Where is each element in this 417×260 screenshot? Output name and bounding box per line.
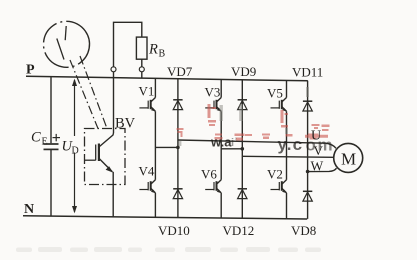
transistor BV emitter with arrow (99, 158, 112, 172)
watermark gray dashes on wires (179, 87, 309, 146)
wire V3 emitter to V6 collector (220, 111, 222, 180)
transistor V4 (139, 180, 155, 193)
wire leg2 midpoint connector (221, 148, 242, 150)
transistor V6 (205, 180, 221, 193)
svg-text:V2: V2 (267, 167, 283, 182)
svg-text:P: P (26, 63, 35, 78)
motor M circle (334, 143, 363, 172)
svg-text:VD9: VD9 (231, 64, 256, 79)
diode leg VD11/VD8 wire (307, 81, 309, 219)
voltage UD measure line with arrows (74, 80, 76, 136)
svg-text:V3: V3 (205, 85, 221, 100)
diode VD12 (238, 189, 247, 199)
svg-text:R: R (148, 42, 158, 58)
faint scan ghosts bottom (16, 247, 321, 252)
svg-text:M: M (341, 150, 356, 169)
svg-text:V5: V5 (267, 86, 283, 101)
junction leg2 (241, 147, 245, 151)
transistor BV main bar (98, 144, 100, 162)
wire left terminal down to BV collector (crosses P rail) (113, 72, 115, 133)
junction leg3 W tap (306, 170, 310, 174)
transistor V3 (205, 98, 221, 112)
transistor BV collector (99, 133, 114, 147)
transistor BV gate bar (95, 145, 97, 161)
wire V2 emitter to N rail (286, 193, 288, 219)
transistor V5 (271, 98, 287, 112)
svg-text:VD10: VD10 (158, 223, 190, 238)
svg-text:V4: V4 (139, 164, 155, 179)
svg-text:V1: V1 (139, 84, 155, 99)
junction leg1 (176, 146, 180, 150)
svg-text:V: V (314, 143, 324, 158)
wire resistor bottom to terminal (141, 59, 143, 67)
terminal circle left (111, 67, 116, 72)
svg-text:VD11: VD11 (292, 65, 323, 80)
BV dash-dot box (85, 129, 126, 185)
wire right terminal stub to P rail (141, 72, 143, 78)
svg-text:y.c: y.c (278, 135, 304, 154)
leader line 2 (dash-dot) from circle to BV box (80, 56, 107, 129)
diode VD9 (238, 100, 247, 110)
leader line 1 (dash-dot) from circle to BV box (70, 60, 98, 129)
capacitor CE plus sign (53, 137, 61, 139)
watermark gray url text (210, 135, 334, 155)
svg-text:VD8: VD8 (291, 223, 316, 238)
terminal circle right (139, 67, 144, 72)
capacitor CE branch wire bottom (50, 149, 52, 216)
diode VD11 (303, 101, 312, 111)
svg-text:D: D (72, 146, 79, 157)
svg-text:VD7: VD7 (167, 64, 193, 79)
svg-text:W: W (311, 159, 324, 174)
brake resistor loop left branch (114, 22, 142, 67)
svg-text:B: B (159, 49, 166, 60)
transistor V1 (139, 98, 155, 112)
svg-text:U: U (311, 129, 321, 144)
P rail (26, 76, 308, 81)
diode VD10 (173, 189, 182, 199)
capacitor CE branch wire top (50, 77, 52, 143)
watermark red char row (177, 104, 330, 141)
wire V6 emitter to N rail (220, 193, 222, 218)
wire V4 emitter to N rail (154, 193, 156, 218)
IGBT V5 leg wire top (286, 80, 288, 97)
phase U line (178, 140, 336, 148)
wire leg1 midpoint connector (155, 146, 178, 148)
svg-text:V6: V6 (201, 167, 217, 182)
svg-text:BV: BV (115, 116, 136, 132)
svg-text:w.a: w.a (210, 135, 232, 150)
svg-text:N: N (24, 202, 34, 217)
transistor BV gate lead (85, 159, 96, 161)
wire BV emitter to N rail (112, 172, 114, 218)
diode leg VD9/VD12 wire (241, 79, 243, 218)
svg-text:VD12: VD12 (223, 223, 255, 238)
diode VD8 (303, 191, 312, 201)
wire V1 emitter to V4 collector (154, 111, 156, 180)
N rail (23, 216, 307, 219)
diode VD7 (173, 100, 182, 110)
switch contact inside circle (65, 26, 66, 40)
IGBT V3 leg wire top (220, 79, 222, 97)
transistor V2 (271, 180, 287, 193)
svg-text:iʾ: iʾ (231, 137, 238, 149)
breaker circle (dash-dot) (34, 12, 98, 76)
resistor RB body (136, 37, 147, 59)
phase V line (242, 156, 333, 157)
wire V5 emitter to V2 collector (286, 111, 288, 180)
phase W line (308, 168, 337, 171)
diode leg VD7/VD10 wire (177, 79, 179, 218)
svg-text:E: E (42, 137, 48, 148)
IGBT V1 leg wire top (154, 78, 156, 97)
svg-text:C: C (31, 130, 41, 146)
capacitor CE plates (44, 143, 59, 145)
